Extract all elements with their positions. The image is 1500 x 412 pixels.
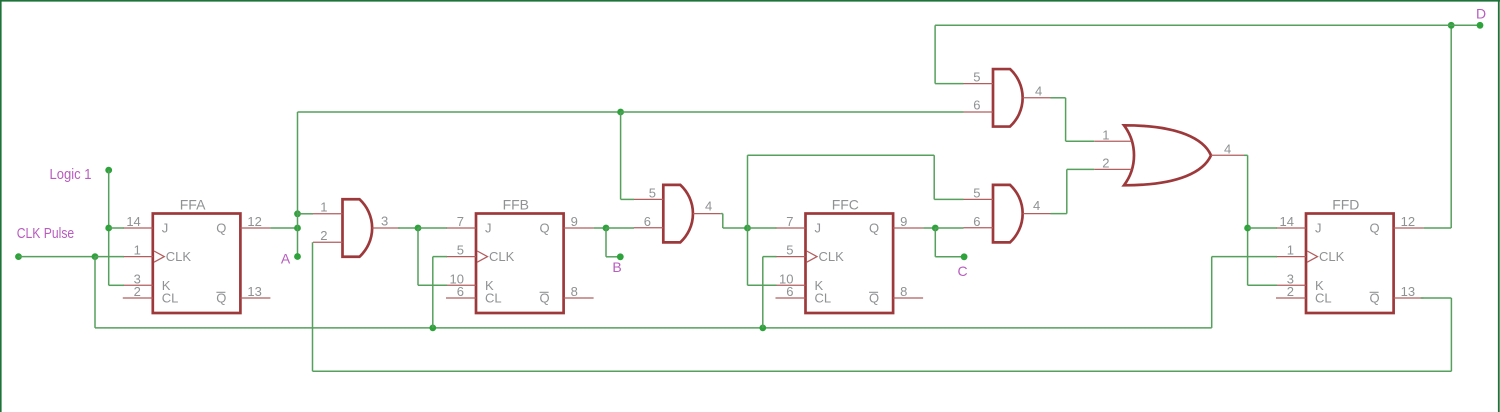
svg-text:4: 4 <box>1033 198 1040 213</box>
wire to OR input 1 <box>1066 140 1095 142</box>
svg-text:9: 9 <box>900 214 907 229</box>
wire junction to FFC pin 7 (J) <box>748 227 777 229</box>
wire G4 output drop <box>1065 98 1067 141</box>
svg-text:Q: Q <box>216 221 226 236</box>
wire net D riser up <box>1450 25 1452 228</box>
svg-text:7: 7 <box>457 214 464 229</box>
wire OR output drop to FFD <box>1247 155 1249 285</box>
wire node B horizontal to dot <box>606 256 620 258</box>
svg-text:5: 5 <box>973 69 980 84</box>
wire to OR input 2 <box>1067 168 1094 170</box>
wire Qbar bottom horizontal <box>313 370 1452 372</box>
wire drop to G3 input 5 <box>933 155 935 199</box>
wire CLK bus horizontal <box>95 327 1212 329</box>
svg-text:12: 12 <box>247 214 261 229</box>
svg-text:7: 7 <box>786 214 793 229</box>
AND gate G3 (pins 5,6 -> 4) <box>964 185 1051 243</box>
svg-text:J: J <box>815 221 822 236</box>
wire net A riser to G2 <box>620 112 622 199</box>
svg-text:3: 3 <box>381 214 388 229</box>
svg-text:1: 1 <box>134 243 141 258</box>
svg-text:2: 2 <box>320 228 327 243</box>
svg-text:6: 6 <box>786 284 793 299</box>
svg-text:D: D <box>1476 6 1486 22</box>
AND gate G2 (pins 5,6 -> 4) <box>634 185 721 243</box>
svg-text:CLK: CLK <box>1319 249 1345 264</box>
svg-text:4: 4 <box>1224 142 1231 157</box>
svg-text:2: 2 <box>134 284 141 299</box>
wire G4 output right <box>1051 97 1066 99</box>
svg-text:12: 12 <box>1401 214 1415 229</box>
flip-flop FFC (JK) <box>776 197 924 314</box>
junction net D top <box>1448 22 1455 29</box>
svg-text:FFB: FFB <box>503 197 529 213</box>
AND gate G4 (pins 5,6 -> 4) <box>964 69 1051 127</box>
wire node A to G1 input 1 <box>298 213 314 215</box>
svg-text:C: C <box>957 263 967 279</box>
wire FFD Q to riser <box>1424 227 1452 229</box>
wire node C horizontal to dot <box>935 256 964 258</box>
wire FFC CLK riser to pin 5 <box>763 256 777 258</box>
wire G1 output to FFB junction <box>398 227 418 229</box>
wire to G3 input 5 stub <box>934 198 963 200</box>
svg-text:FFC: FFC <box>832 197 859 213</box>
junction node A / FFA Q <box>294 225 301 232</box>
svg-text:Logic 1: Logic 1 <box>50 167 92 183</box>
svg-text:6: 6 <box>973 214 980 229</box>
wire G2 output drop <box>722 214 724 228</box>
wire FFA Q to node A column <box>270 227 297 229</box>
node C terminal dot <box>961 253 968 260</box>
wire G2 output to FFC junction <box>723 227 748 229</box>
wire CLK junction to FFA pin 1 (CLK) <box>95 256 124 258</box>
wire net A riser to G2 input 5 <box>621 198 634 200</box>
svg-text:8: 8 <box>571 284 578 299</box>
wire Logic1 to FFA pin 3 (K) <box>109 284 124 286</box>
wire FFC CLK riser <box>762 257 764 328</box>
wire FFC-J net top horizontal <box>748 154 935 156</box>
svg-text:4: 4 <box>705 199 712 214</box>
junction node A / G1 input 1 <box>294 210 301 217</box>
wire node C junction to G3 input 6 <box>935 227 963 229</box>
svg-text:1: 1 <box>1102 128 1109 143</box>
wire tie to FFB pin 10 (K) <box>418 284 447 286</box>
flip-flop FFB (JK) <box>446 197 594 314</box>
wire tie to FFC pin 10 (K) <box>748 284 777 286</box>
wire Logic1 to FFA pin 14 (J) <box>109 227 124 229</box>
wire FFC Q to node C junction <box>923 227 935 229</box>
junction node B <box>603 225 610 232</box>
svg-text:CLK: CLK <box>166 249 192 264</box>
node A terminal dot <box>294 253 301 260</box>
wire OR output right <box>1244 154 1248 156</box>
flip-flop FFD (JK) <box>1276 197 1424 314</box>
svg-text:6: 6 <box>644 214 651 229</box>
wire net A top horizontal <box>298 111 621 113</box>
OR gate U5 (pins 1,2 -> 4) <box>1094 125 1244 185</box>
wire node C drop <box>934 228 936 257</box>
node Logic 1 terminal dot <box>105 167 112 174</box>
svg-text:CL: CL <box>1315 291 1332 306</box>
junction node C <box>932 225 939 232</box>
wire FFB CLK riser to pin 5 <box>433 256 447 258</box>
svg-text:FFA: FFA <box>180 197 206 213</box>
svg-text:Q: Q <box>869 221 879 236</box>
wire net D drop to G4 <box>934 25 936 83</box>
junction FFD J/K tie <box>1244 225 1251 232</box>
wire node B junction to G2 input 6 <box>606 227 634 229</box>
svg-text:Q: Q <box>539 221 549 236</box>
wire G2 output right <box>721 213 723 215</box>
svg-text:A: A <box>281 251 291 267</box>
flip-flop FFA (JK) <box>123 197 271 314</box>
svg-text:CL: CL <box>485 291 502 306</box>
svg-text:14: 14 <box>1280 214 1294 229</box>
svg-text:4: 4 <box>1035 84 1042 99</box>
junction CLK bus / FFB riser <box>429 325 436 332</box>
wire G3 output right <box>1051 213 1067 215</box>
svg-text:13: 13 <box>1401 284 1415 299</box>
wire CLK riser down <box>94 257 96 328</box>
svg-text:6: 6 <box>457 284 464 299</box>
junction net A / G2 riser <box>617 109 624 116</box>
svg-text:B: B <box>612 259 621 275</box>
wire net D top horizontal <box>935 24 1451 26</box>
svg-text:5: 5 <box>457 243 464 258</box>
svg-text:CLK: CLK <box>489 249 515 264</box>
svg-text:CLK Pulse: CLK Pulse <box>17 226 74 242</box>
wire FFC J/K tie vertical <box>747 228 749 285</box>
svg-text:J: J <box>162 221 169 236</box>
wire junction to FFD pin 14 (J) <box>1248 227 1277 229</box>
svg-text:CL: CL <box>162 291 179 306</box>
wire FFD CLK riser to pin 1 <box>1212 256 1277 258</box>
wire Qbar rise to G1 input 2 <box>312 242 314 371</box>
wire G3 output rise <box>1066 169 1068 213</box>
svg-text:6: 6 <box>973 98 980 113</box>
svg-text:J: J <box>1315 221 1322 236</box>
wire FFD CLK riser <box>1211 257 1213 328</box>
node CLK Pulse terminal dot <box>15 253 22 260</box>
svg-text:2: 2 <box>1287 284 1294 299</box>
wire FFB CLK riser <box>432 257 434 328</box>
wire net A top horizontal to G4 input 6 <box>621 111 964 113</box>
node D terminal dot <box>1477 22 1484 29</box>
junction Logic1/FFA-J <box>105 225 112 232</box>
wire Logic1 vertical <box>108 170 110 285</box>
svg-text:9: 9 <box>571 214 578 229</box>
wire FFB Q to node B junction <box>594 227 606 229</box>
svg-text:FFD: FFD <box>1332 197 1359 213</box>
svg-text:CLK: CLK <box>819 249 845 264</box>
wire FFC-J net riser up <box>747 155 749 228</box>
svg-text:J: J <box>485 221 492 236</box>
wire node B drop <box>605 228 607 257</box>
wire net D to G4 input 5 <box>935 83 963 85</box>
wire Qbar drop right side <box>1450 298 1452 371</box>
svg-text:5: 5 <box>973 185 980 200</box>
wire junction to FFB pin 7 (J) <box>418 227 447 229</box>
svg-text:1: 1 <box>320 200 327 215</box>
svg-text:CL: CL <box>815 291 832 306</box>
node B terminal dot <box>617 253 624 260</box>
svg-text:5: 5 <box>649 185 656 200</box>
wire CLK from terminal to junction <box>19 256 96 258</box>
svg-text:8: 8 <box>900 284 907 299</box>
svg-text:5: 5 <box>786 243 793 258</box>
svg-text:2: 2 <box>1102 156 1109 171</box>
svg-text:13: 13 <box>247 284 261 299</box>
wire FFD pin 13 to corner <box>1421 297 1452 299</box>
wire net D to terminal <box>1451 24 1480 26</box>
junction FFB J/K tie <box>415 225 422 232</box>
svg-text:14: 14 <box>126 214 140 229</box>
junction FFC J/K tie <box>744 225 751 232</box>
svg-text:1: 1 <box>1287 243 1294 258</box>
AND gate G1 (pins 1,2 -> 3) <box>313 199 400 257</box>
wire FFB J/K tie vertical <box>417 228 419 285</box>
junction CLK bus / FFC riser <box>759 325 766 332</box>
wire tie to FFD pin 3 (K) <box>1248 284 1277 286</box>
svg-text:Q: Q <box>1369 221 1379 236</box>
junction CLK / bus riser <box>92 253 99 260</box>
wire node A vertical column <box>297 112 299 257</box>
